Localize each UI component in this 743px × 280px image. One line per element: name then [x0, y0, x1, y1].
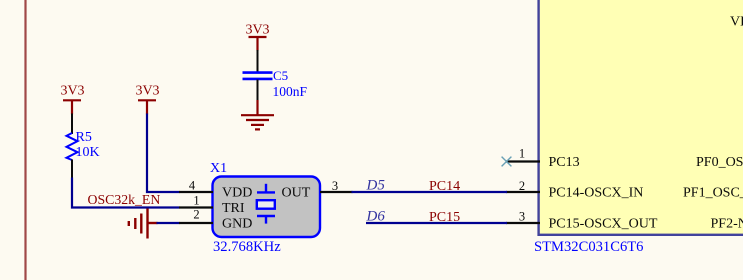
IC U? STM32C031C6T6 body: [539, 0, 743, 235]
svg-text:R5: R5: [76, 130, 92, 145]
wire (black lead) 3V3 to C5: [257, 50, 259, 72]
svg-text:4: 4: [189, 179, 196, 193]
IC pin 2 PC14-OSCX_IN: [506, 191, 540, 193]
IC pin 3 PC15-OSCX_OUT: [506, 222, 540, 224]
svg-text:3: 3: [332, 179, 338, 193]
svg-text:GND: GND: [222, 217, 252, 232]
svg-text:OUT: OUT: [282, 186, 311, 201]
svg-text:D6: D6: [366, 209, 386, 225]
wire net D5/PC14 (navy): [352, 191, 508, 193]
power port 3V3 (left, over R5): [63, 100, 81, 114]
svg-text:PF2-NRST: PF2-NRST: [711, 217, 743, 232]
svg-text:32.768KHz: 32.768KHz: [213, 239, 281, 255]
svg-text:2: 2: [519, 179, 525, 193]
X1 pin 1 (TRI): [179, 206, 213, 208]
wire 3V3 to X1 VDD pin (navy): [147, 114, 180, 193]
svg-text:TRI: TRI: [222, 201, 245, 216]
svg-text:PC15: PC15: [429, 210, 460, 225]
sheet border: [24, 0, 26, 280]
ground (sideways) at X1 GND: [129, 209, 158, 239]
svg-text:PC15-OSCX_OUT: PC15-OSCX_OUT: [549, 217, 658, 232]
power port 3V3 (second, to X1 VDD): [138, 100, 156, 114]
svg-text:PF1_OSC_OUT: PF1_OSC_OUT: [683, 186, 743, 201]
svg-text:3V3: 3V3: [60, 84, 84, 99]
svg-text:X1: X1: [210, 161, 227, 176]
no-ERC cross on pin 1: [502, 157, 512, 167]
svg-text:1: 1: [193, 194, 199, 208]
svg-text:VDD: VDD: [222, 186, 252, 201]
wire (black lead) C5 bottom: [257, 80, 259, 102]
svg-text:3V3: 3V3: [135, 84, 159, 99]
IC pin 1 PC13: [506, 160, 540, 162]
X1 pin 3 (OUT): [320, 191, 353, 193]
capacitor C5: [243, 73, 273, 79]
svg-text:3: 3: [519, 210, 525, 224]
svg-text:PC14: PC14: [429, 179, 460, 194]
svg-text:C5: C5: [273, 68, 288, 83]
svg-text:PC13: PC13: [549, 155, 580, 170]
svg-text:3V3: 3V3: [245, 23, 269, 38]
wire net D6/PC15 (navy): [366, 222, 507, 224]
resistor R5: [67, 133, 78, 160]
crystal symbol inside X1: [257, 184, 275, 224]
svg-text:1: 1: [519, 147, 525, 161]
svg-text:STM32C031C6T6: STM32C031C6T6: [534, 239, 643, 255]
X1 pin 4 (VDD): [179, 191, 213, 193]
wire ground to X1 GND pin (navy): [157, 222, 180, 224]
wire (black pin lead) 3V3 to R5: [71, 114, 73, 135]
wire (black pin lead) R5 bottom: [71, 160, 73, 179]
svg-text:10K: 10K: [76, 145, 100, 160]
svg-text:VDD: VDD: [730, 15, 743, 30]
svg-text:2: 2: [193, 208, 199, 222]
oscillator X1 body: [213, 177, 321, 238]
svg-text:PC14-OSCX_IN: PC14-OSCX_IN: [549, 186, 644, 201]
ground (down) below C5: [241, 100, 274, 129]
X1 pin 2 (GND): [179, 222, 213, 224]
svg-text:100nF: 100nF: [273, 84, 308, 99]
svg-text:D5: D5: [366, 178, 386, 194]
svg-text:PF0_OSC_IN: PF0_OSC_IN: [696, 155, 743, 170]
svg-text:OSC32k_EN: OSC32k_EN: [88, 192, 161, 207]
power port 3V3 (top, over C5): [249, 37, 267, 51]
wire OSC32k_EN net (navy): [72, 178, 180, 208]
